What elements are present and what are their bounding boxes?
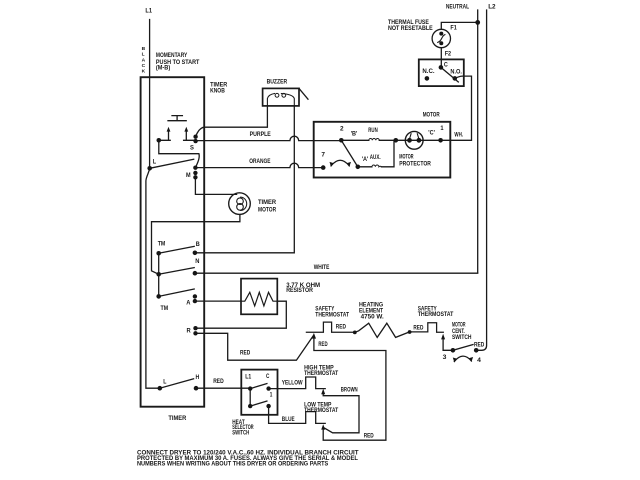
- svg-text:TIMER: TIMER: [168, 415, 186, 422]
- svg-text:L: L: [163, 379, 166, 386]
- svg-text:THERMOSTAT: THERMOSTAT: [315, 311, 349, 318]
- svg-text:RED: RED: [240, 350, 251, 357]
- svg-text:L1: L1: [145, 8, 152, 15]
- svg-text:AUX.: AUX.: [370, 154, 381, 161]
- svg-text:'B': 'B': [351, 131, 358, 138]
- svg-text:ORANGE: ORANGE: [249, 158, 270, 165]
- svg-text:N: N: [195, 258, 200, 265]
- svg-text:MOTOR: MOTOR: [423, 111, 440, 118]
- svg-text:A: A: [186, 299, 191, 306]
- svg-text:BUZZER: BUZZER: [267, 79, 288, 86]
- svg-text:RESISTOR: RESISTOR: [286, 287, 313, 294]
- svg-text:KNOB: KNOB: [210, 88, 225, 95]
- svg-text:THERMOSTAT: THERMOSTAT: [304, 407, 338, 414]
- svg-text:B: B: [196, 241, 200, 248]
- svg-text:NOT RESETABLE: NOT RESETABLE: [388, 25, 433, 32]
- svg-text:L2: L2: [488, 3, 496, 10]
- svg-text:TIMER: TIMER: [258, 199, 277, 206]
- svg-text:PURPLE: PURPLE: [250, 131, 271, 138]
- svg-text:A: A: [142, 57, 146, 63]
- svg-text:N.O.: N.O.: [450, 68, 462, 75]
- svg-text:TM: TM: [158, 241, 166, 248]
- svg-text:7: 7: [321, 152, 325, 159]
- svg-text:RED: RED: [213, 378, 224, 385]
- svg-text:'C': 'C': [428, 129, 435, 136]
- svg-text:K: K: [142, 69, 146, 75]
- svg-text:4: 4: [477, 357, 481, 364]
- svg-text:RED: RED: [336, 324, 347, 331]
- svg-text:L: L: [142, 52, 145, 58]
- svg-text:TM: TM: [161, 305, 169, 312]
- svg-text:N.C.: N.C.: [422, 68, 434, 75]
- svg-text:WHITE: WHITE: [314, 264, 330, 271]
- svg-text:S: S: [190, 144, 194, 151]
- svg-text:1: 1: [270, 392, 273, 399]
- svg-text:RED: RED: [318, 341, 328, 348]
- svg-text:SWITCH: SWITCH: [452, 334, 472, 341]
- svg-text:L: L: [153, 158, 157, 165]
- svg-text:(M-B): (M-B): [156, 64, 170, 71]
- svg-text:BROWN: BROWN: [341, 387, 358, 394]
- svg-text:PROTECTOR: PROTECTOR: [399, 160, 431, 167]
- svg-text:4750 W.: 4750 W.: [361, 314, 384, 321]
- svg-text:M: M: [186, 172, 191, 179]
- svg-text:B: B: [142, 46, 146, 52]
- svg-text:F2: F2: [445, 50, 452, 57]
- svg-text:RED: RED: [364, 433, 374, 440]
- svg-text:YELLOW: YELLOW: [282, 380, 303, 387]
- svg-text:RUN: RUN: [368, 127, 378, 134]
- svg-text:SWITCH: SWITCH: [232, 429, 249, 436]
- svg-text:BLUE: BLUE: [282, 416, 295, 423]
- svg-text:C: C: [142, 63, 146, 69]
- svg-text:NEUTRAL: NEUTRAL: [446, 3, 469, 10]
- svg-text:L1: L1: [245, 373, 251, 380]
- svg-text:RED: RED: [413, 325, 423, 332]
- svg-text:F1: F1: [450, 24, 457, 31]
- svg-text:RED: RED: [474, 342, 485, 349]
- svg-text:'A': 'A': [362, 156, 369, 163]
- svg-text:C: C: [444, 61, 448, 68]
- svg-text:H: H: [196, 374, 200, 381]
- svg-text:THERMOSTAT: THERMOSTAT: [418, 311, 454, 318]
- svg-text:MOTOR: MOTOR: [258, 207, 277, 214]
- svg-text:WH.: WH.: [454, 131, 463, 138]
- svg-text:THERMOSTAT: THERMOSTAT: [304, 370, 338, 377]
- svg-text:2: 2: [340, 125, 344, 132]
- svg-text:NUMBERS WHEN WRITING ABOUT THI: NUMBERS WHEN WRITING ABOUT THIS DRYER OR…: [137, 461, 328, 467]
- svg-text:1: 1: [440, 125, 444, 132]
- svg-text:R: R: [187, 328, 192, 335]
- svg-text:C: C: [266, 373, 270, 380]
- svg-text:3: 3: [443, 354, 447, 361]
